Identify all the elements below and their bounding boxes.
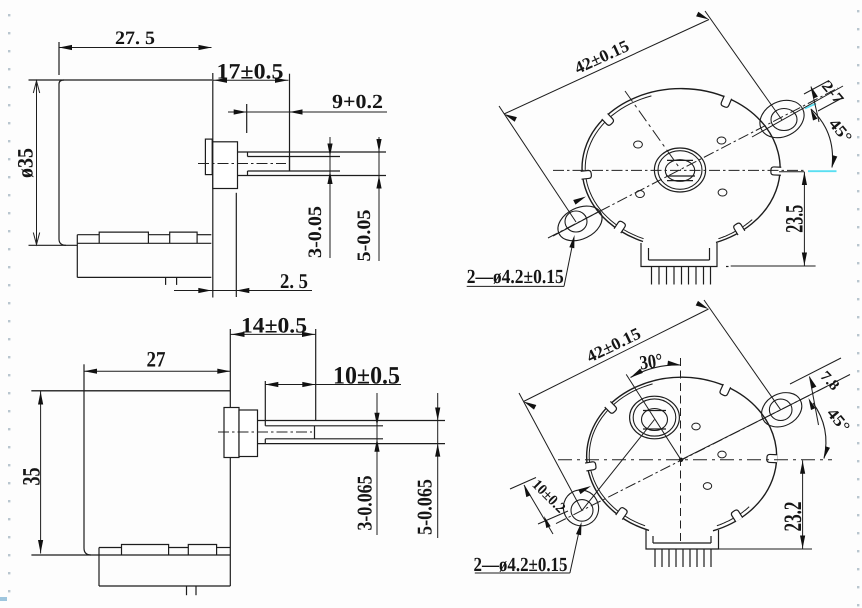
dimension 42±0.15 front view 2: [519, 300, 781, 510]
dimension 23.2: [719, 460, 813, 549]
shaft boss side view 1: [213, 142, 238, 189]
mounting ear hole top-right front view 2: [769, 399, 792, 420]
svg-text:2. 5: 2. 5: [280, 269, 308, 293]
diagonal construction line front view 1: [625, 91, 681, 170]
mounting ear bottom-left front view 1: [552, 199, 608, 247]
dimension 14±0.5: [231, 313, 316, 421]
arrow on diagonal at bottom-left hole front view 1: [573, 197, 586, 205]
dimension 45 deg front view 1: [811, 109, 855, 168]
dimension 3-0.065: [353, 393, 380, 535]
dimension 2-7: [804, 78, 847, 122]
mounting ear hole top-right front view 1: [771, 109, 797, 131]
screw hole D front view 1: [718, 189, 727, 196]
terminal pins front view 1: [652, 267, 711, 285]
dimension 45 deg front view 2: [813, 403, 853, 459]
svg-text:23.2: 23.2: [780, 502, 807, 532]
dimension 5-0.065: [413, 393, 441, 538]
dimension 3-0.05: [305, 137, 333, 258]
line center to top-right hole front view 2: [681, 410, 781, 460]
mounting ear top-right front view 2: [756, 386, 808, 434]
diagonal centerline through ears front view 2: [556, 385, 830, 524]
dimension 2.5: [174, 193, 312, 297]
mounting ear top-right front view 1: [754, 93, 811, 145]
output shaft side view 1: [238, 152, 387, 176]
motor can front view 2: [587, 377, 777, 531]
rolled rim inner edge right front view 1: [718, 220, 752, 239]
rolled rim inner edge left front view 2: [589, 384, 652, 526]
shaft hub front view 2: [630, 396, 680, 439]
motor can side view 2: [31, 329, 230, 586]
mounting ear hole bottom-left front view 2: [571, 500, 593, 522]
dimension 9+0.2: [228, 91, 387, 133]
cyan segment at ear front view 1: [805, 104, 816, 109]
screw hole C front view 2: [703, 483, 711, 490]
svg-text:3-0.065: 3-0.065: [353, 476, 377, 531]
label 2-d4.2±0.15 front view 1: [467, 235, 575, 288]
dimension 27: [84, 347, 230, 374]
dimension 10±0.2: [510, 477, 568, 534]
terminal housing front view 1: [641, 243, 717, 267]
dimension 27.5: [59, 28, 212, 50]
dimension 17±0.5: [213, 59, 290, 172]
svg-text:35: 35: [19, 468, 46, 486]
svg-text:27. 5: 27. 5: [115, 28, 155, 49]
label 2-d4.2±0.15 front view 2: [474, 522, 582, 576]
dimension 10±0.5: [265, 363, 401, 421]
terminal pins side view 2: [187, 586, 197, 595]
can crimp notches front view 1: [581, 96, 782, 235]
svg-text:2—ø4.2±0.15: 2—ø4.2±0.15: [467, 266, 564, 288]
dimension 35: [19, 391, 46, 554]
rolled rim inner edge right front view 2: [717, 507, 749, 526]
svg-text:ø35: ø35: [13, 148, 38, 178]
center point front view 2: [679, 458, 683, 462]
terminal housing front view 2: [646, 530, 719, 549]
screw hole B front view 1: [717, 137, 726, 144]
svg-text:3-0.05: 3-0.05: [305, 206, 326, 258]
output shaft side view 2: [258, 421, 446, 444]
terminal pins side view 1: [166, 277, 177, 285]
svg-text:27: 27: [147, 347, 166, 372]
motor can top edge side view 2: [31, 390, 230, 392]
shaft centerline side view 2: [218, 431, 312, 433]
motor can side view 1: [29, 42, 213, 298]
terminal housing side view 2: [99, 545, 230, 587]
horizontal centerline front view 2: [558, 459, 832, 461]
cyan centerline segment right front view 1: [808, 170, 837, 172]
dimension d35: [13, 80, 40, 245]
dimension 23.5: [726, 172, 816, 267]
dimension 30 deg: [631, 350, 681, 378]
shaft hub front view 1: [654, 148, 705, 192]
svg-text:17±0.5: 17±0.5: [217, 59, 284, 84]
mounting ear bottom-left front view 2: [557, 484, 605, 532]
diagonal centerline through ears front view 1: [548, 86, 843, 238]
dimension 7.8: [781, 358, 850, 425]
horizontal centerline front view 1: [553, 169, 806, 171]
svg-text:5-0.065: 5-0.065: [413, 479, 437, 535]
screw hole A front view 1: [634, 141, 643, 148]
shaft centerline side view 1: [198, 163, 286, 165]
svg-text:5-0.05: 5-0.05: [354, 210, 375, 262]
screw hole C front view 1: [636, 191, 645, 198]
arrow on diagonal at bottom-left hole front view 2: [578, 486, 591, 494]
shaft boss side view 2: [239, 410, 258, 457]
can crimp notches front view 2: [585, 384, 777, 522]
svg-text:23.5: 23.5: [782, 205, 809, 233]
terminal pins front view 2: [655, 549, 711, 567]
screw hole B front view 2: [718, 451, 726, 458]
bearing tab side view 2: [224, 408, 239, 458]
dimension 42±0.15 front view 1: [499, 11, 782, 222]
line hub to bottom-left hole front view 2: [582, 420, 655, 511]
terminal housing side view 1: [77, 232, 211, 277]
rolled rim inner edge left front view 1: [585, 96, 651, 239]
screw hole A front view 2: [692, 423, 700, 430]
line hub to center front view 2: [626, 374, 681, 459]
svg-text:9+0.2: 9+0.2: [332, 91, 383, 113]
svg-text:10±0.5: 10±0.5: [333, 363, 400, 390]
svg-text:14±0.5: 14±0.5: [241, 313, 307, 338]
dimension 5-0.05: [354, 137, 382, 262]
bearing tab side view 1: [205, 139, 212, 175]
mounting ear hole bottom-left front view 1: [565, 211, 587, 232]
svg-text:30°: 30°: [638, 350, 664, 375]
motor can front view 1: [582, 89, 780, 243]
vertical centerline front view 2: [680, 358, 682, 545]
